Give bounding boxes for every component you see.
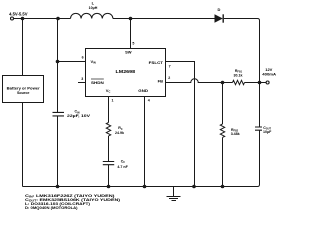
wire battery top <box>22 19 24 76</box>
svg-text:3: 3 <box>81 77 83 81</box>
svg-text:SHDN: SHDN <box>91 80 104 85</box>
wire top rail right with corner <box>224 19 260 21</box>
junction dot battery tap <box>21 17 25 21</box>
svg-text:FSLCT: FSLCT <box>149 60 164 65</box>
junction dot VIN tap <box>56 60 60 64</box>
svg-text:D: D <box>218 7 221 12</box>
svg-text:6: 6 <box>82 56 84 60</box>
wire CC lower <box>108 165 110 187</box>
capacitor CC plates <box>103 162 114 165</box>
junction dot CC bottom <box>107 185 111 189</box>
wire bottom rail <box>23 186 258 188</box>
wire FSLCT pin 7 <box>166 62 195 187</box>
svg-text:5: 5 <box>132 41 134 45</box>
wire output rail lower <box>258 131 260 187</box>
wire output stub <box>260 82 267 84</box>
diode D <box>215 14 223 22</box>
inductor L 10uH <box>71 13 113 18</box>
output terminal <box>266 81 269 84</box>
wire CIN branch upper <box>57 19 59 113</box>
svg-text:400mA: 400mA <box>262 73 276 77</box>
input terminal 4.5V-5.5V <box>11 17 14 20</box>
resistor RFB2 3.48k branch <box>222 83 224 125</box>
svg-text:SW: SW <box>125 50 132 55</box>
wire output rail upper <box>259 21 261 127</box>
svg-text:1: 1 <box>112 99 114 103</box>
junction dot output tap <box>258 81 262 85</box>
svg-text:10µF: 10µF <box>263 130 272 134</box>
battery box <box>3 76 44 103</box>
wire FB to output rail <box>245 82 260 84</box>
wire top rail middle <box>113 18 215 20</box>
capacitor CIN plates <box>53 112 65 116</box>
svg-text:FB: FB <box>158 79 163 84</box>
wire VIN pin 6 <box>58 61 86 63</box>
junction dot SW tap <box>129 17 133 21</box>
junction dot FSLCT bottom <box>192 185 196 189</box>
svg-text:4.7 nF: 4.7 nF <box>117 165 128 169</box>
wire RFB2 lower <box>222 138 224 187</box>
wire CIN branch lower <box>57 116 59 186</box>
junction dot RFB2 bottom <box>221 185 225 189</box>
junction dot CIN bottom <box>56 185 60 189</box>
wire top rail left <box>14 18 71 20</box>
wire GND pin 4 <box>144 97 146 187</box>
svg-text:Source: Source <box>17 90 30 95</box>
svg-text:GND: GND <box>138 88 148 93</box>
svg-text:LM2698: LM2698 <box>116 69 136 74</box>
svg-text:2: 2 <box>168 76 170 80</box>
wire RC to CC <box>108 136 110 161</box>
svg-text:D: 0MQ040N (MOTOROLA): D: 0MQ040N (MOTOROLA) <box>25 206 78 210</box>
resistor RC 24.9k <box>106 123 110 136</box>
wire SHDN pin 3 stub <box>78 82 86 84</box>
capacitor COUT plates <box>255 127 262 130</box>
svg-text:10µH: 10µH <box>89 6 98 10</box>
wire SW pin 5 <box>130 19 132 49</box>
wire FB pin 2 with hop <box>166 79 233 83</box>
resistor RFB1 30.1k <box>233 80 245 84</box>
svg-text:3.48k: 3.48k <box>231 132 240 136</box>
wire VC pin 1 <box>108 97 110 123</box>
junction dot GND bottom <box>143 185 147 189</box>
resistor RFB2 zigzag <box>220 124 224 137</box>
svg-text:4.5V-5.5V: 4.5V-5.5V <box>9 12 28 17</box>
svg-text:24.9k: 24.9k <box>115 131 124 135</box>
junction dot RFB2 tap <box>221 81 225 85</box>
op-amp U1 LM2698 box <box>86 49 166 97</box>
svg-text:4: 4 <box>148 99 150 103</box>
wire battery bottom <box>22 103 24 187</box>
svg-text:22µF, 10V: 22µF, 10V <box>67 114 91 118</box>
svg-text:12V: 12V <box>265 67 272 72</box>
ground <box>167 187 181 201</box>
svg-text:7: 7 <box>169 65 171 69</box>
junction dot CIN/VIN tap <box>56 17 60 21</box>
svg-text:30.1k: 30.1k <box>234 73 243 77</box>
